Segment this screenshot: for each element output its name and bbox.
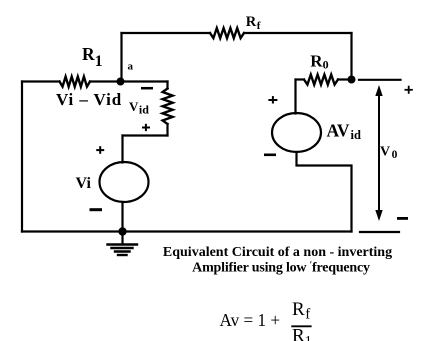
minus Vo bottom	[397, 217, 408, 220]
wire Rid bottom stub	[166, 124, 168, 136]
plus below Vid	[142, 124, 150, 131]
wire Ro left stub	[296, 78, 305, 80]
svg-text:Vi – Vid: Vi – Vid	[56, 90, 122, 109]
wire Vi bottom to ground junction	[121, 202, 123, 232]
wire AVid top	[294, 80, 296, 114]
wire Rid loop bottom	[123, 134, 168, 136]
minus above Vid	[141, 87, 153, 90]
svg-text:Vid: Vid	[129, 99, 149, 117]
wire left vertical	[21, 82, 23, 232]
wire AVid bottom to output corner	[297, 152, 352, 232]
resistor R1	[60, 77, 91, 87]
wire top-left to R1	[22, 80, 60, 82]
formula Av = 1 + Rf/R1	[220, 299, 312, 341]
minus Vi	[90, 208, 103, 211]
svg-text:Av = 1 +: Av = 1 +	[220, 310, 281, 330]
svg-text:a: a	[128, 61, 134, 73]
wire R1 to node a	[90, 80, 122, 82]
resistor Rid (input resistance across Vid)	[163, 89, 173, 125]
wire right vertical down to output node	[350, 33, 352, 80]
wire bottom horizontal	[22, 230, 352, 232]
wire down to Vi source	[121, 136, 123, 163]
minus AVid	[264, 154, 276, 157]
output terminal bottom line	[360, 231, 399, 233]
source AVid	[272, 113, 321, 152]
wire node a to Rid loop top	[122, 80, 168, 82]
node a (junction dot)	[117, 78, 125, 86]
output terminal top line	[359, 79, 401, 81]
plus AVid	[268, 96, 277, 103]
wire Ro to output node	[338, 78, 352, 80]
ground	[108, 232, 138, 256]
resistor Rf	[210, 28, 244, 38]
wire node a up	[120, 33, 122, 82]
node ground (junction dot)	[118, 227, 126, 235]
plus Vo top	[405, 86, 413, 94]
svg-text:Vi: Vi	[76, 175, 92, 192]
wire Rf to right corner	[244, 32, 352, 34]
wire Rid top stub	[166, 82, 168, 89]
resistor Ro	[304, 75, 338, 85]
svg-text:Amplifier using low ʹfrequency: Amplifier using low ʹfrequency	[192, 260, 370, 276]
node output (junction dot)	[348, 76, 356, 84]
wire top horizontal to Rf	[122, 32, 211, 34]
source Vi	[100, 162, 149, 202]
arrow Vo double-headed	[375, 85, 382, 221]
plus Vi	[96, 146, 104, 154]
svg-text:Equivalent Circuit of a non -: Equivalent Circuit of a non - inverting	[163, 245, 392, 260]
